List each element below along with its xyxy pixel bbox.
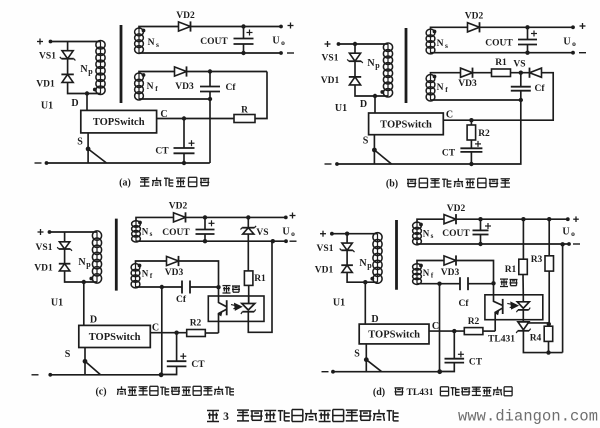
svg-text:U: U: [562, 227, 569, 238]
label Nf (d): [423, 268, 430, 278]
opto emitter arrow (d): [494, 310, 499, 315]
wire + output rail (b): [480, 26, 574, 28]
label VS1 (d): [317, 244, 334, 254]
wire COUT top stub (a): [243, 27, 245, 39]
node COUT + (b): [525, 25, 529, 29]
label Uo subscript o (c): [291, 229, 295, 238]
label VD3 (d): [441, 268, 460, 278]
wire C rail (a): [157, 118, 234, 120]
wire COUT bottom stub (d): [480, 235, 482, 245]
label VD2 (a): [176, 11, 195, 21]
label R1 (b): [495, 58, 507, 68]
polarity dot Ns (b): [433, 30, 437, 34]
wire R1 to LED (c): [248, 286, 250, 304]
sign - output (a): [287, 52, 294, 54]
polarity dot Nf (d): [419, 264, 423, 268]
label CT (c): [191, 360, 205, 370]
svg-text:N: N: [437, 39, 444, 49]
wire Cf to collector node (d): [468, 283, 494, 285]
transformer primary winding Np (a): [96, 40, 105, 94]
svg-text:p: p: [88, 67, 93, 76]
wire C rail (c): [150, 332, 186, 334]
svg-text:Cf: Cf: [176, 295, 187, 305]
wire R2 top stub (b): [470, 120, 472, 125]
figure caption Fig3: [207, 411, 219, 422]
svg-text:N: N: [148, 38, 155, 48]
node Cf bottom (b): [519, 98, 523, 102]
label pin C (c): [152, 323, 159, 334]
node S (a): [86, 147, 91, 152]
wire R1 top (d): [522, 219, 524, 259]
feedback diode VD3 (d): [444, 255, 456, 265]
wire opto collector (c): [219, 287, 227, 306]
transformer primary winding Np (d): [373, 233, 382, 284]
polarity dot Np (a): [93, 88, 97, 92]
label Ns (a): [148, 38, 155, 48]
svg-text:CT: CT: [469, 358, 483, 368]
diode VD1 (c): [59, 264, 71, 271]
wire S diagonal (b): [374, 150, 391, 164]
svg-text:VD2: VD2: [176, 11, 195, 21]
wire Nf top rail (b): [431, 73, 461, 76]
terminal + input (c): [38, 229, 44, 235]
opto emitter arrow (c): [217, 311, 222, 316]
wire VS branch upper (c): [247, 217, 249, 227]
label U1 (c): [51, 298, 63, 309]
wire opto emitter (d): [495, 308, 502, 331]
node input - (b): [335, 162, 339, 166]
wire + output rail (d): [456, 218, 568, 220]
svg-text:s: s: [156, 40, 159, 49]
polarity dot Np (d): [370, 277, 374, 281]
output capacitor COUT (b): [518, 31, 537, 45]
diode VD1 (d): [341, 265, 353, 272]
svg-text:N: N: [142, 227, 149, 237]
svg-text:R1: R1: [254, 274, 266, 284]
node VS1 tap (b): [353, 42, 357, 46]
IC U1 TOPSwitch (a): [81, 110, 157, 132]
IC U1 TOPSwitch (b): [369, 113, 444, 135]
rectifier diode VD2 (a): [179, 21, 191, 31]
label pin S (d): [354, 349, 360, 360]
svg-text:R1: R1: [505, 265, 517, 275]
label R (a): [241, 106, 248, 116]
sign - output (c): [290, 240, 297, 242]
wire VS to corner (b): [443, 73, 553, 121]
label Nf subscript f (d): [431, 272, 434, 280]
zener VS1 (a): [60, 51, 76, 61]
label Nf subscript f (a): [155, 84, 158, 93]
label Nf (a): [147, 82, 154, 92]
wire CT top stub (c): [176, 333, 178, 362]
svg-text:VD3: VD3: [175, 82, 194, 92]
wire TL431 anode (d): [523, 331, 562, 353]
wire R2 to emitter leg (c): [205, 332, 218, 334]
svg-text:VD2: VD2: [447, 204, 466, 214]
wire - output rail (a): [139, 52, 281, 54]
svg-text:D: D: [90, 315, 97, 326]
svg-text:N: N: [437, 83, 444, 93]
wire VD1 to bottom node (d): [347, 272, 377, 282]
svg-text:VS1: VS1: [322, 54, 339, 64]
wire S diagonal (a): [88, 149, 106, 163]
node COUT - (c): [203, 239, 207, 243]
label Ns subscript s (d): [431, 232, 434, 240]
wire - output rail (b): [431, 52, 574, 54]
node Nf ground (d): [437, 282, 441, 286]
wire S stub (d): [365, 344, 367, 372]
node R2 tap (b): [469, 118, 473, 122]
wire COUT bottom stub (c): [204, 234, 206, 241]
wire clamp branch vertical (a): [67, 42, 69, 51]
svg-text:U: U: [563, 37, 570, 48]
terminal Uo + (c): [284, 216, 288, 220]
svg-text:VD1: VD1: [315, 266, 334, 276]
svg-text:(d): (d): [373, 387, 385, 398]
label Np subscript p (d): [367, 261, 372, 270]
svg-text:R2: R2: [190, 319, 202, 329]
svg-text:R2: R2: [478, 129, 490, 139]
wire VD3 to R1 (b): [473, 72, 493, 74]
caption (d) TL431: [407, 388, 434, 398]
wire ground rail (d): [333, 371, 440, 373]
label CT (d): [469, 358, 483, 368]
svg-text:TL431: TL431: [407, 388, 434, 398]
svg-text:o: o: [281, 38, 285, 47]
wire ground rail (c): [50, 374, 161, 376]
label VD1 (a): [36, 80, 55, 90]
wire output return vertical (d): [562, 244, 564, 353]
wire CT bottom stub (a): [183, 153, 185, 163]
wire R1 to VS node (b): [511, 72, 530, 74]
label VD3 (a): [175, 82, 194, 92]
transformer core (c): [115, 219, 118, 291]
svg-text:o: o: [291, 229, 295, 238]
wire D node to TOPSwitch (a): [86, 94, 88, 111]
terminal Uo + (a): [279, 25, 283, 29]
svg-text:s: s: [150, 230, 153, 238]
caption (a) prefix: [119, 178, 131, 189]
wire R2 to emitter leg (d): [483, 330, 495, 332]
wire CT bottom stub (c): [161, 366, 177, 374]
svg-text:R4: R4: [530, 334, 542, 344]
svg-text:VD1: VD1: [36, 80, 55, 90]
wire Nf top rail (d): [417, 261, 444, 265]
resistor R2 (d): [464, 328, 483, 335]
feedback capacitor Cf (b): [511, 87, 531, 91]
control capacitor CT (d): [445, 351, 465, 362]
node ground CT (b): [469, 162, 473, 166]
wire Ns bottom stub (a): [138, 52, 140, 55]
label pin D (b): [360, 99, 367, 110]
node input + (b): [337, 42, 341, 46]
wire Nf bottom rail (d): [417, 283, 460, 285]
polarity dot Np (b): [380, 90, 384, 94]
optocoupler box (c): [208, 296, 264, 321]
wire VD1 to bottom node (b): [355, 85, 388, 96]
svg-text:p: p: [375, 61, 380, 70]
label pin D (a): [71, 98, 78, 109]
label pin D (c): [90, 315, 97, 326]
caption (b) text: [407, 178, 510, 187]
feedback winding Nf (c): [131, 264, 140, 288]
node - rail return (d): [560, 242, 564, 246]
svg-text:U1: U1: [333, 298, 345, 309]
node R1 + rail (d): [521, 217, 525, 221]
caption (a) text: [140, 177, 209, 186]
transformer core (b): [405, 28, 408, 103]
svg-text:C: C: [160, 109, 167, 120]
opto LED (d): [516, 302, 530, 312]
node R4-TL431 anode (d): [546, 350, 550, 354]
shunt regulator TL431 (d): [516, 322, 530, 333]
node Cf bottom (a): [208, 97, 212, 101]
label Nf subscript f (c): [150, 272, 153, 280]
label pin C (a): [160, 109, 167, 120]
wire VD1 to bottom node (a): [68, 83, 101, 94]
label Ns subscript s (b): [445, 41, 448, 50]
label Np subscript p (b): [375, 61, 380, 70]
resistor R1 (c): [244, 271, 253, 286]
zener VS1 (b): [347, 53, 363, 63]
label Ns subscript s (c): [150, 230, 153, 238]
svg-text:f: f: [431, 272, 434, 280]
svg-text:Cf: Cf: [225, 83, 236, 93]
svg-text:COUT: COUT: [485, 39, 513, 49]
svg-text:o: o: [571, 229, 575, 238]
wire Ns top to + rail (d): [417, 219, 444, 223]
node VS tap (c): [246, 215, 250, 219]
wire R1 to opto (d): [522, 275, 524, 295]
label R2 (b): [478, 129, 490, 139]
node ground junction (c): [159, 372, 164, 377]
feedback capacitor Cf (d): [460, 277, 468, 290]
svg-text:VD2: VD2: [465, 12, 484, 22]
label Np (c): [78, 257, 86, 268]
label optocoupler (c): [223, 286, 241, 293]
caption (d) prefix: [373, 387, 385, 398]
node D junction (a): [85, 91, 89, 95]
watermark www.diangon.com: [458, 408, 598, 426]
label VD2 (d): [447, 204, 466, 214]
diode VD1 (b): [349, 77, 361, 85]
svg-text:VD1: VD1: [34, 264, 53, 274]
node VD3-Cf-opto (d): [491, 281, 495, 285]
rectifier diode VD2 (c): [174, 212, 186, 222]
terminal + input (a): [37, 39, 43, 45]
feedback diode VD3 (a): [175, 66, 187, 76]
opto phototransistor bar (d): [502, 299, 504, 314]
polarity dot Ns (c): [138, 221, 142, 225]
svg-text:R: R: [241, 106, 248, 116]
IC U1 TOPSwitch (c): [79, 325, 151, 347]
svg-text:N: N: [147, 82, 154, 92]
node input + (d): [330, 232, 334, 236]
label optocoupler (d): [500, 279, 518, 286]
label Uo (a): [272, 36, 279, 47]
label Nf (c): [142, 269, 149, 279]
svg-text:D: D: [360, 99, 367, 110]
output capacitor COUT (a): [234, 30, 254, 45]
svg-text:CT: CT: [155, 147, 169, 157]
label COUT (d): [442, 229, 470, 239]
svg-text:TOPSwitch: TOPSwitch: [93, 117, 145, 128]
opto phototransistor bar (c): [226, 300, 228, 315]
wire S diagonal (c): [85, 361, 101, 375]
label Cf (c): [176, 295, 187, 305]
resistor R4 (d): [544, 326, 553, 341]
svg-text:S: S: [363, 136, 369, 147]
svg-text:VD2: VD2: [169, 202, 188, 212]
opto LED (c): [241, 304, 256, 315]
feedback winding Nf (d): [413, 264, 422, 285]
terminal + input (b): [325, 41, 331, 47]
wire VD3 to corner down (c): [179, 261, 219, 287]
svg-text:f: f: [155, 84, 158, 93]
svg-text:www.diangon.com: www.diangon.com: [458, 408, 598, 426]
wire - output rail (d): [417, 243, 569, 245]
label VS1 (a): [39, 52, 56, 62]
caption (d) text2: [440, 387, 512, 396]
label Ns (b): [437, 39, 444, 49]
node S (d): [364, 357, 369, 362]
label pin S (c): [65, 349, 71, 360]
node input - (a): [45, 161, 49, 165]
zener VS1 (d): [340, 243, 355, 252]
label VD3 (b): [458, 79, 477, 89]
sign + output (c): [290, 213, 296, 219]
label COUT (c): [162, 228, 190, 238]
node Nf ground (c): [160, 285, 164, 289]
node input + (c): [48, 230, 52, 234]
polarity dot Ns (a): [142, 29, 146, 33]
zener VS (c): [241, 226, 257, 234]
svg-text:s: s: [431, 232, 434, 240]
wire CT bottom stub (b): [470, 152, 472, 164]
sign - output (d): [573, 243, 580, 245]
label pin D (d): [371, 314, 378, 325]
label Cf (d): [458, 299, 469, 309]
label U1 (b): [335, 103, 347, 114]
wire S diagonal (d): [366, 360, 381, 372]
svg-text:U1: U1: [41, 101, 53, 112]
svg-text:N: N: [142, 269, 149, 279]
resistor R2 (c): [187, 330, 206, 337]
sign + output (a): [288, 23, 294, 29]
svg-text:COUT: COUT: [200, 37, 228, 47]
control capacitor CT (a): [174, 140, 195, 153]
label Uo subscript o (d): [571, 229, 575, 238]
wire Cf top stub (b): [520, 73, 522, 87]
node S (c): [83, 359, 88, 364]
polarity dot Np (c): [89, 277, 93, 281]
label Nf (b): [437, 83, 444, 93]
label R2 (c): [190, 319, 202, 329]
control capacitor CT (b): [460, 141, 482, 152]
wire VD1 to bottom node (c): [65, 271, 97, 282]
caption (c) prefix: [95, 387, 106, 398]
label pin S (b): [363, 136, 369, 147]
node R1-VS junction (b): [519, 71, 523, 75]
opto light arrow (c): [231, 304, 242, 311]
svg-text:C: C: [152, 323, 159, 334]
label Ns (c): [142, 227, 149, 237]
polarity dot Nf (c): [138, 264, 142, 268]
feedback winding Nf (b): [426, 75, 435, 101]
node ground junction (d): [437, 369, 442, 374]
node S (b): [372, 148, 377, 153]
svg-text:(c): (c): [95, 387, 106, 398]
wire VS1 to VD1 (a): [67, 59, 69, 74]
svg-text:S: S: [354, 349, 360, 360]
wire opto emitter (c): [219, 310, 227, 334]
node divider R3-R4 (d): [547, 322, 551, 326]
wire Nf bottom rail (b): [431, 99, 521, 101]
label Np (d): [359, 258, 367, 269]
wire Ns bottom stub (d): [416, 242, 418, 244]
diode VD1 (a): [61, 74, 73, 82]
svg-text:N: N: [359, 258, 367, 269]
svg-text:(b): (b): [386, 179, 398, 190]
sign - output (b): [579, 52, 586, 54]
caption (d) char pei: [395, 388, 404, 395]
label R3 (d): [531, 255, 543, 265]
wire Nf top rail (a): [139, 72, 175, 75]
label CT (b): [442, 149, 456, 159]
svg-text:VD3: VD3: [441, 268, 460, 278]
wire opto collector (d): [494, 283, 503, 305]
rectifier diode VD2 (d): [444, 214, 456, 224]
label VD3 (c): [165, 268, 184, 278]
figure caption 3: [223, 411, 229, 423]
feedback capacitor Cf (c): [182, 281, 190, 294]
svg-text:N: N: [80, 64, 88, 75]
label Uo (d): [562, 227, 569, 238]
feedback winding Nf (a): [135, 73, 144, 100]
svg-text:C: C: [446, 110, 453, 121]
terminal Uo - (a): [279, 51, 283, 55]
svg-text:VS: VS: [513, 60, 525, 70]
label VS (b): [513, 60, 525, 70]
label Np (b): [367, 58, 375, 69]
svg-text:COUT: COUT: [442, 229, 470, 239]
node R3 + rail (d): [547, 217, 551, 221]
rectifier diode VD2 (b): [468, 22, 480, 32]
feedback diode VD3 (c): [167, 256, 179, 266]
wire CT top stub (d): [453, 331, 455, 359]
label COUT (b): [485, 39, 513, 49]
wire Nf bottom rail (c): [136, 286, 183, 288]
terminal Uo + (b): [571, 25, 575, 29]
label R1 (c): [254, 274, 266, 284]
svg-text:R3: R3: [531, 255, 543, 265]
svg-text:S: S: [65, 349, 71, 360]
resistor R3 (d): [545, 256, 554, 271]
label TL431 (d): [488, 335, 515, 345]
svg-text:TOPSwitch: TOPSwitch: [368, 330, 420, 341]
wire VS1 to VD1 (b): [354, 62, 356, 77]
svg-text:f: f: [150, 272, 153, 280]
wire Ns top to + rail (b): [431, 27, 468, 30]
wire VD3 to corner (a): [187, 71, 268, 73]
label COUT (a): [200, 37, 228, 47]
resistor R (a): [234, 115, 255, 123]
wire LED cathode down (c): [248, 241, 272, 332]
node D junction (c): [82, 280, 86, 284]
label pin C (b): [446, 110, 453, 121]
node COUT + (a): [241, 24, 245, 28]
label Nf subscript f (b): [445, 85, 448, 94]
